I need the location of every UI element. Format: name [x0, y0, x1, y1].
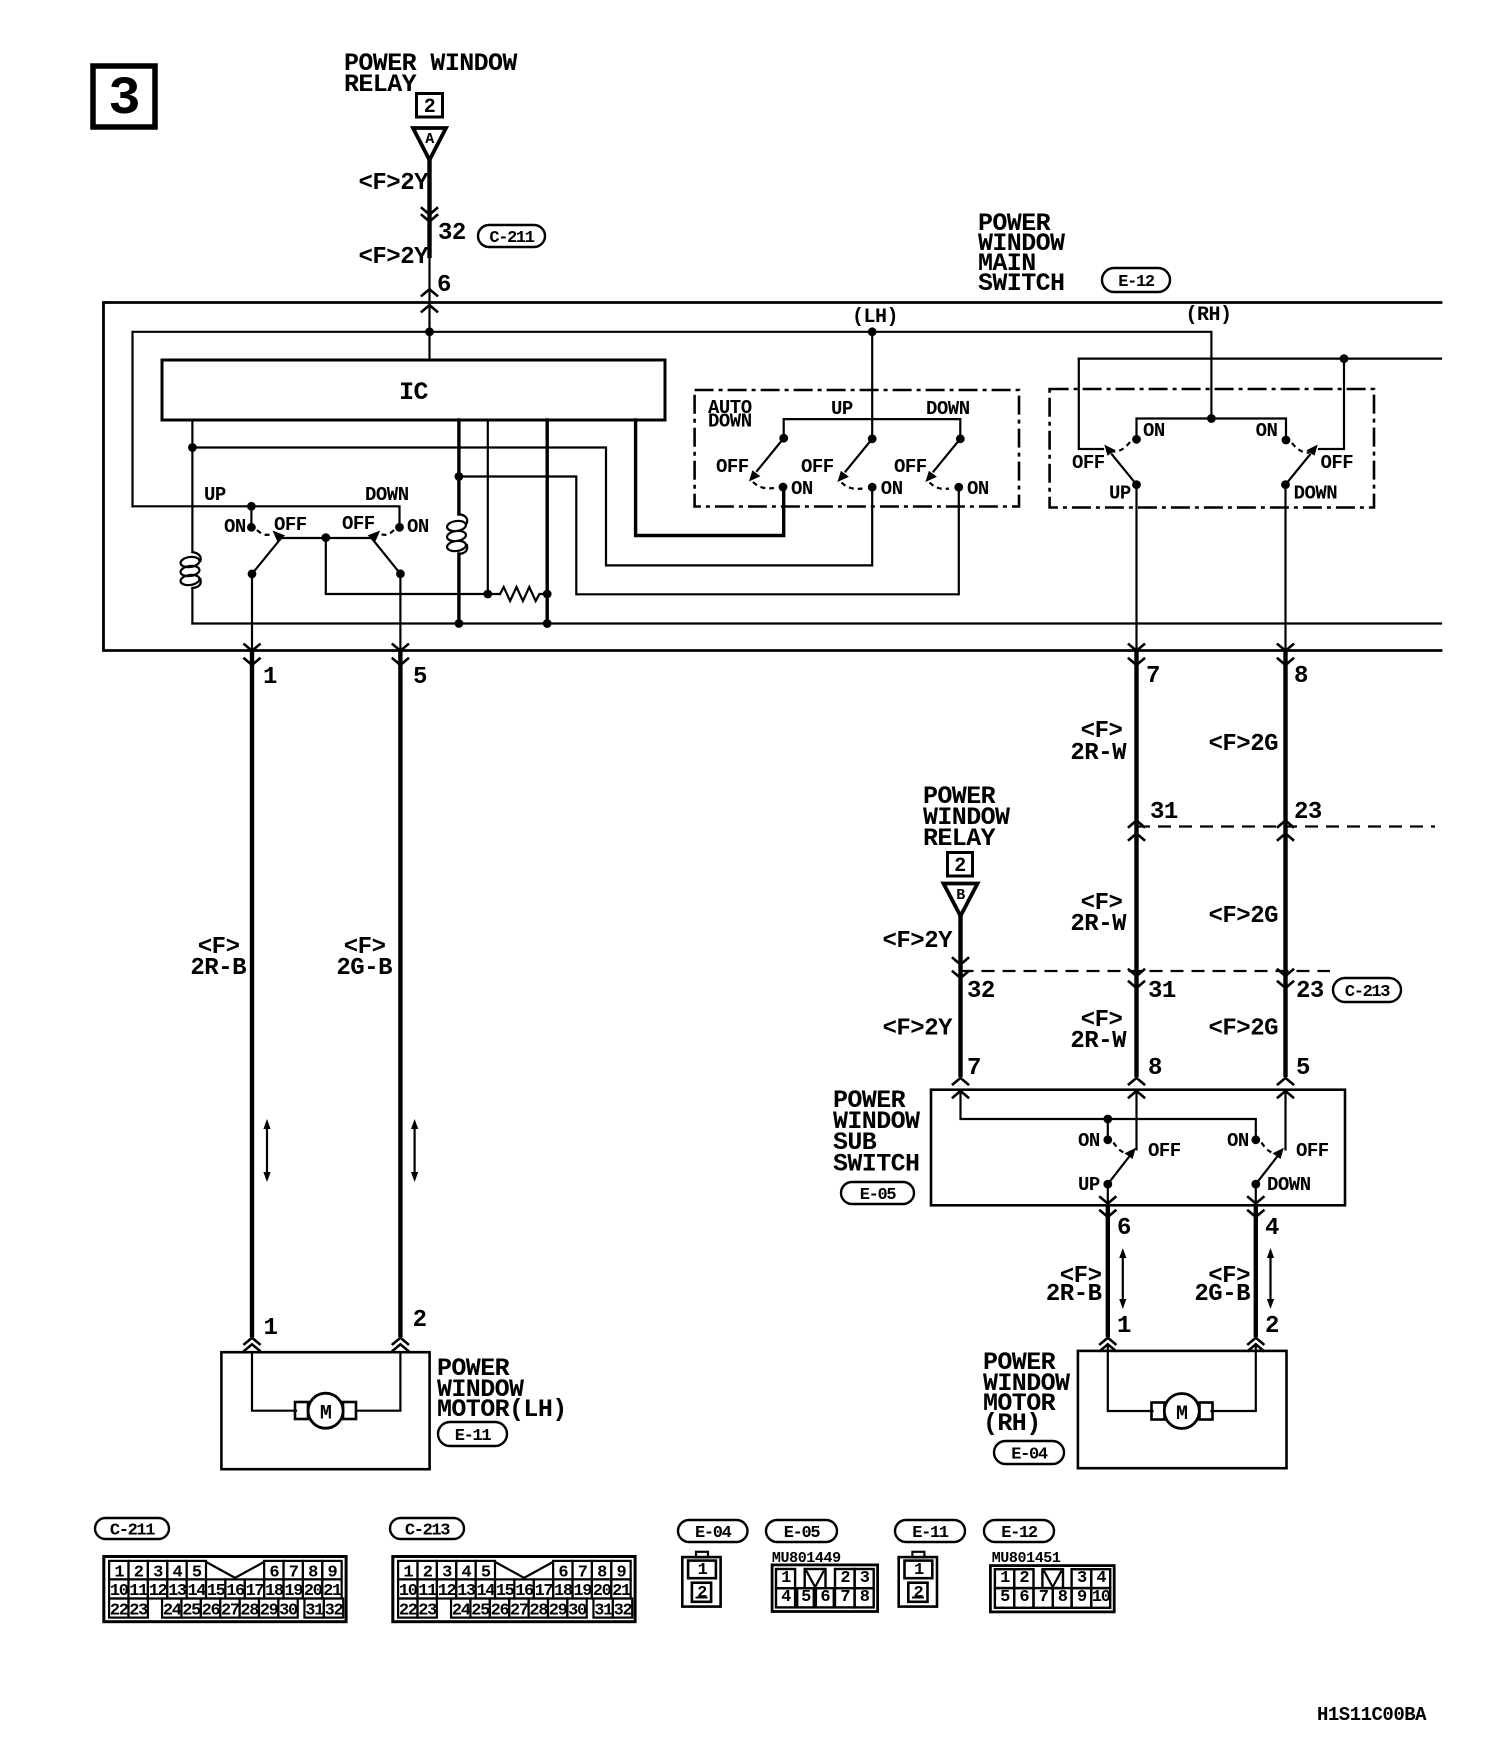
chevrons wire8 at upper dashed line: [1278, 821, 1293, 840]
svg-text:OFF: OFF: [1296, 1140, 1329, 1162]
svg-text:RELAY: RELAY: [344, 70, 417, 99]
svg-text:29: 29: [549, 1601, 568, 1620]
connector label E-04 bottom: [678, 1520, 748, 1543]
LH switch dashed throw right: [381, 530, 394, 535]
svg-text:<F>2G: <F>2G: [1208, 731, 1278, 758]
svg-text:26: 26: [491, 1601, 510, 1620]
connector label E-12 bottom: [984, 1520, 1054, 1543]
svg-text:OFF: OFF: [342, 513, 375, 535]
RH OFF rail: [1079, 358, 1441, 360]
junction bar/ON stub: [247, 502, 256, 511]
junction RH OFF rail right: [1340, 354, 1349, 363]
LH switch ON contact left: [247, 523, 256, 532]
svg-text:C-213: C-213: [1345, 983, 1390, 1002]
svg-text:2: 2: [1265, 1313, 1279, 1340]
svg-text:ON: ON: [967, 478, 989, 500]
auto down switch enclosure: [695, 390, 1019, 507]
power window main switch box E-12: [104, 303, 1442, 651]
svg-text:DOWN: DOWN: [708, 411, 752, 433]
svg-text:<F>2Y: <F>2Y: [358, 244, 429, 271]
auto-down pivot 2: [868, 434, 877, 443]
connector pinout C-211: [104, 1557, 346, 1622]
wire 2R-B to motor LH: [250, 651, 254, 1337]
RH ON contact left: [1132, 435, 1141, 444]
wire relay B to sub switch: [958, 914, 962, 1077]
svg-text:22: 22: [399, 1601, 418, 1620]
wire LH feed to auto-down switch: [871, 332, 873, 439]
sub arm UP: [1108, 1148, 1136, 1184]
coil L2: [446, 514, 467, 554]
up-down arrow right 2: [1267, 1248, 1274, 1309]
auto-down dashed throw 3: [930, 483, 950, 489]
wire 2G-B sub to motor RH: [1254, 1206, 1258, 1337]
svg-text:4: 4: [781, 1588, 791, 1607]
svg-text:ON: ON: [1143, 420, 1165, 442]
wire IC to auto-down common: [636, 420, 784, 536]
svg-text:C-211: C-211: [489, 229, 534, 248]
svg-text:3: 3: [1077, 1569, 1087, 1588]
auto-down ON contact 3: [954, 483, 963, 492]
connector pinout C-213: [393, 1557, 635, 1622]
sub switch common wire: [961, 1091, 1256, 1140]
svg-text:6: 6: [437, 272, 451, 299]
wire label (F) 2R-W seg2: [1070, 890, 1127, 938]
svg-text:25: 25: [182, 1601, 201, 1620]
svg-text:1: 1: [1000, 1569, 1010, 1588]
IC pin wire thin to resistor node: [487, 420, 489, 594]
RH dashed throw left: [1113, 442, 1131, 452]
wire pin 8 inside box: [1284, 485, 1286, 651]
RH pivot UP: [1132, 480, 1141, 489]
wire pin7 to sub OFF left: [1135, 1091, 1137, 1149]
svg-text:31: 31: [305, 1601, 324, 1620]
relay A connector triangle A: [413, 128, 446, 160]
wire label (F) 2R-W seg3: [1070, 1007, 1127, 1055]
chevrons pin 1 exit: [244, 644, 259, 665]
svg-text:26: 26: [202, 1601, 221, 1620]
sub arm DOWN: [1256, 1148, 1284, 1184]
RH arm DOWN: [1286, 445, 1318, 485]
LH switch ON stub left: [250, 506, 252, 527]
svg-text:ON: ON: [791, 478, 813, 500]
connector label E-11 bottom: [895, 1520, 965, 1543]
auto-down dashed throw 1: [753, 482, 774, 488]
svg-text:MOTOR(LH): MOTOR(LH): [437, 1395, 567, 1424]
svg-text:7: 7: [967, 1055, 981, 1082]
svg-text:4: 4: [1096, 1569, 1106, 1588]
up-down arrow right 1: [1119, 1248, 1126, 1309]
svg-text:A: A: [425, 131, 434, 148]
svg-text:E-05: E-05: [784, 1524, 821, 1543]
svg-text:SWITCH: SWITCH: [978, 269, 1064, 298]
RH ON contact right: [1282, 436, 1291, 445]
svg-text:OFF: OFF: [716, 456, 749, 478]
chevrons motor RH pin2: [1248, 1338, 1263, 1351]
svg-text:E-12: E-12: [1001, 1524, 1038, 1543]
svg-text:1: 1: [263, 664, 277, 691]
sub pivot DOWN: [1251, 1180, 1260, 1189]
svg-text:32: 32: [438, 220, 466, 247]
power window main switch label: [978, 209, 1065, 298]
svg-text:9: 9: [1077, 1588, 1087, 1607]
svg-text:DOWN: DOWN: [365, 484, 409, 506]
chevrons entering main switch: [422, 289, 437, 311]
LH switch pivot left: [248, 570, 257, 579]
svg-text:E-05: E-05: [860, 1186, 897, 1205]
svg-text:DOWN: DOWN: [926, 398, 970, 420]
svg-text:28: 28: [240, 1601, 259, 1620]
svg-text:1: 1: [781, 1569, 791, 1588]
svg-text:E-04: E-04: [1011, 1446, 1048, 1465]
svg-text:2R-W: 2R-W: [1070, 911, 1127, 938]
chevrons relay B wire at C-213: [953, 958, 968, 978]
connector label C-211 bottom: [95, 1518, 169, 1541]
svg-text:E-12: E-12: [1118, 273, 1155, 292]
RH switch enclosure: [1050, 389, 1374, 508]
IC pin wire thick to resistor node: [546, 420, 549, 624]
connector pinout E-04: [682, 1552, 720, 1607]
wire pin5 to sub OFF right: [1284, 1091, 1286, 1149]
svg-text:2R-B: 2R-B: [1046, 1281, 1102, 1308]
svg-text:C-211: C-211: [110, 1522, 155, 1541]
svg-text:<F>2Y: <F>2Y: [358, 170, 429, 197]
chevrons pin 8 exit: [1278, 644, 1293, 665]
LH switch top bar: [133, 506, 400, 527]
connector label E-04 motor: [994, 1441, 1064, 1465]
wire pin 1 inside box: [251, 574, 253, 651]
svg-text:6: 6: [1117, 1215, 1131, 1242]
svg-text:6: 6: [820, 1588, 830, 1607]
chevrons wire8 entering sub switch: [1278, 1078, 1293, 1098]
svg-text:3: 3: [108, 69, 140, 130]
chevrons sub pin6 exit: [1100, 1197, 1115, 1217]
svg-text:27: 27: [221, 1601, 240, 1620]
svg-text:30: 30: [279, 1601, 298, 1620]
svg-text:RELAY: RELAY: [923, 824, 996, 853]
chevrons wire7 at upper dashed line: [1129, 821, 1144, 840]
wire sub pin6 inside: [1107, 1184, 1109, 1205]
svg-text:1: 1: [1117, 1313, 1131, 1340]
RH pivot DOWN: [1281, 480, 1290, 489]
LH switch arm left: [252, 531, 285, 574]
svg-text:ON: ON: [407, 516, 429, 538]
svg-text:2: 2: [697, 1584, 707, 1603]
relay B terminal box 2: [948, 853, 973, 879]
svg-text:6: 6: [1019, 1588, 1029, 1607]
svg-text:2R-W: 2R-W: [1070, 1028, 1127, 1055]
wire IC to auto-down UP contact: [192, 448, 872, 566]
svg-text:UP: UP: [204, 484, 226, 506]
svg-text:<F>2Y: <F>2Y: [882, 1016, 953, 1043]
connector label E-05 bottom: [766, 1520, 837, 1543]
auto-down arm 3: [925, 439, 960, 482]
svg-text:7: 7: [1039, 1588, 1049, 1607]
svg-text:24: 24: [452, 1601, 471, 1620]
junction pin6/rail: [425, 327, 434, 336]
chevrons wire7 at C-213: [1129, 970, 1144, 988]
svg-text:IC: IC: [399, 378, 428, 407]
auto-down ON contact 2: [868, 483, 877, 492]
svg-text:5: 5: [413, 664, 427, 691]
wire sub pin4 inside: [1255, 1184, 1257, 1205]
svg-text:H1S11C00BA: H1S11C00BA: [1317, 1704, 1427, 1726]
svg-text:30: 30: [568, 1601, 587, 1620]
svg-text:2: 2: [954, 855, 966, 878]
motor LH wiring: [252, 1352, 296, 1411]
connector label E-11 motor: [438, 1422, 507, 1446]
svg-text:2: 2: [913, 1584, 923, 1603]
resistor R1 line: [326, 538, 500, 594]
svg-text:23: 23: [129, 1601, 148, 1620]
relay A terminal box 2: [417, 94, 443, 120]
svg-text:E-04: E-04: [695, 1524, 732, 1543]
wire IC to auto-down DOWN contact: [459, 477, 959, 595]
svg-text:31: 31: [1148, 978, 1176, 1005]
power window motor LH label: [437, 1354, 567, 1424]
svg-text:29: 29: [260, 1601, 279, 1620]
sub pivot UP: [1103, 1180, 1112, 1189]
wire label (F) 2G-B right: [1194, 1263, 1250, 1308]
svg-text:32: 32: [614, 1601, 633, 1620]
svg-text:E-11: E-11: [455, 1427, 492, 1446]
svg-text:31: 31: [594, 1601, 613, 1620]
IC U1: [162, 360, 665, 420]
connector label C-213 bottom: [390, 1518, 464, 1541]
svg-text:5: 5: [1000, 1588, 1010, 1607]
svg-text:2: 2: [840, 1569, 850, 1588]
svg-text:31: 31: [1150, 799, 1178, 826]
auto-down ON contact 1: [779, 483, 788, 492]
chevrons relay B wire entering sub switch: [953, 1078, 968, 1098]
svg-text:3: 3: [860, 1569, 870, 1588]
svg-text:<F>2Y: <F>2Y: [882, 928, 953, 955]
connector label E-05: [841, 1182, 914, 1205]
up-down arrow left 2: [411, 1119, 418, 1182]
AUTO DOWN label: [708, 397, 752, 433]
wire 2G-B to motor LH: [398, 651, 402, 1337]
coil L1: [180, 552, 201, 588]
chevrons motor RH pin1: [1100, 1338, 1115, 1351]
svg-text:10: 10: [1092, 1588, 1111, 1607]
LH switch dashed throw left: [257, 530, 272, 535]
svg-text:25: 25: [471, 1601, 490, 1620]
svg-text:UP: UP: [831, 398, 853, 420]
ground rail bottom of main switch: [192, 622, 1441, 624]
svg-text:23: 23: [418, 1601, 437, 1620]
chevrons wire7 entering sub switch: [1129, 1078, 1144, 1098]
page number box 3: [93, 66, 155, 130]
svg-text:7: 7: [840, 1588, 850, 1607]
junction resistor right: [543, 590, 552, 599]
auto-down arm 2: [837, 439, 872, 482]
connector label E-12: [1102, 268, 1170, 292]
svg-text:5: 5: [1296, 1055, 1310, 1082]
junction IC mid pin: [455, 472, 464, 481]
svg-text:OFF: OFF: [894, 456, 927, 478]
svg-text:23: 23: [1294, 799, 1322, 826]
svg-text:1: 1: [264, 1315, 278, 1342]
svg-text:(RH): (RH): [983, 1409, 1041, 1438]
svg-text:OFF: OFF: [1072, 452, 1105, 474]
motor RH wiring: [1108, 1344, 1153, 1411]
junction LH feed: [868, 327, 877, 336]
chevrons at connector C-211 crossing: [422, 208, 437, 221]
svg-text:OFF: OFF: [1148, 1140, 1181, 1162]
svg-text:2R-B: 2R-B: [190, 955, 246, 982]
sub dashed throw right: [1262, 1143, 1277, 1154]
auto-down common bar: [784, 419, 961, 439]
svg-text:5: 5: [801, 1588, 811, 1607]
sub ON contact left: [1103, 1135, 1112, 1144]
power window motor RH label: [983, 1348, 1070, 1438]
wire label (F) 2R-W seg1: [1070, 718, 1127, 767]
sub ON contact right: [1251, 1135, 1260, 1144]
svg-text:2: 2: [413, 1307, 427, 1334]
svg-text:24: 24: [163, 1601, 182, 1620]
svg-text:2G-B: 2G-B: [336, 955, 392, 982]
IC pin wire / relay coil mid: [457, 420, 460, 624]
svg-text:2R-W: 2R-W: [1070, 740, 1127, 767]
junction IC left pin: [188, 443, 197, 452]
auto-down arm 1: [749, 438, 784, 481]
svg-text:E-11: E-11: [912, 1524, 949, 1543]
wire: relay A to main switch pin 6: [427, 158, 431, 360]
wire label (F) 2R-B left: [190, 934, 246, 982]
svg-text:UP: UP: [1078, 1174, 1100, 1196]
LH switch pivot right: [396, 569, 405, 578]
chevrons motor LH pin1: [244, 1338, 259, 1351]
wire RH OFF right drop: [1319, 359, 1344, 449]
svg-text:DOWN: DOWN: [1294, 483, 1338, 505]
svg-text:(RH): (RH): [1185, 304, 1231, 327]
svg-text:(LH): (LH): [852, 306, 898, 329]
svg-text:7: 7: [1146, 663, 1160, 690]
LH switch ON contact right: [395, 523, 404, 532]
chevrons pin 7 exit: [1129, 644, 1144, 665]
svg-text:ON: ON: [1256, 420, 1278, 442]
junction RH feed/bar: [1207, 414, 1216, 423]
RH arm UP: [1104, 445, 1136, 485]
auto-down dashed throw 2: [842, 483, 863, 489]
resistor R1: [500, 587, 547, 601]
wire pin 5 inside box: [399, 574, 401, 651]
wire 2G pin8 to sub switch: [1283, 651, 1287, 1077]
connector pinout E-11: [899, 1552, 937, 1607]
relay B connector triangle B: [944, 884, 978, 917]
wire 2R-B sub to motor RH: [1106, 1206, 1110, 1337]
sub ON stub left: [1107, 1119, 1109, 1140]
svg-text:8: 8: [1294, 663, 1308, 690]
svg-text:C-213: C-213: [405, 1522, 450, 1541]
RH switch common bar: [1137, 419, 1287, 441]
supply rail from pin 6: [133, 332, 1212, 507]
svg-text:27: 27: [510, 1601, 529, 1620]
junction contact bar center: [321, 533, 330, 542]
svg-text:2G-B: 2G-B: [1194, 1281, 1250, 1308]
wire pin 7 inside box: [1135, 485, 1137, 651]
power window sub switch box E-05: [931, 1090, 1345, 1206]
svg-text:8: 8: [1148, 1055, 1162, 1082]
wire 2R-W pin7 to sub switch: [1134, 651, 1138, 1077]
RH dashed throw right: [1292, 443, 1310, 453]
power window relay (A) label: [344, 49, 517, 99]
svg-text:SWITCH: SWITCH: [833, 1150, 919, 1179]
svg-text:B: B: [956, 887, 965, 904]
motor M1 (LH): [295, 1393, 356, 1428]
chevrons sub pin4 exit: [1248, 1197, 1263, 1217]
dashed connector line upper: [1137, 825, 1435, 827]
junction resistor left: [483, 590, 492, 599]
svg-text:ON: ON: [224, 516, 246, 538]
svg-text:OFF: OFF: [274, 514, 307, 536]
power window motor LH box E-11: [221, 1352, 429, 1469]
chevrons wire8 at C-213: [1278, 970, 1293, 988]
auto-down pivot 1: [779, 434, 788, 443]
connector label C-211: [478, 225, 545, 248]
svg-text:4: 4: [1265, 1215, 1279, 1242]
svg-text:23: 23: [1296, 978, 1324, 1005]
svg-text:<F>2G: <F>2G: [1208, 903, 1278, 930]
power window relay (B) label: [923, 782, 1010, 853]
svg-text:M: M: [1176, 1403, 1188, 1426]
svg-text:32: 32: [325, 1601, 344, 1620]
motor M2 (RH): [1152, 1394, 1213, 1429]
svg-text:32: 32: [967, 978, 995, 1005]
connector pinout E-12 MU801451: [990, 1550, 1114, 1612]
svg-text:M: M: [320, 1403, 332, 1426]
svg-text:2: 2: [1019, 1569, 1029, 1588]
connector label C-213: [1333, 978, 1401, 1002]
svg-text:ON: ON: [881, 478, 903, 500]
auto-down pivot 3: [956, 434, 965, 443]
wire label (F) 2G-B left: [336, 934, 392, 982]
svg-text:<F>2G: <F>2G: [1208, 1016, 1278, 1043]
wire label (F) 2R-B right: [1046, 1263, 1102, 1308]
svg-text:2: 2: [424, 96, 436, 119]
wire RH OFF left drop: [1079, 359, 1103, 449]
svg-text:1: 1: [698, 1561, 708, 1580]
svg-text:OFF: OFF: [801, 456, 834, 478]
svg-text:OFF: OFF: [1321, 452, 1354, 474]
LH switch contact bar: [281, 537, 371, 539]
LH switch arm right: [368, 531, 401, 574]
dashed connector line C-213: [961, 970, 1331, 972]
power window sub switch label: [833, 1086, 920, 1179]
chevrons motor LH pin2: [393, 1338, 408, 1351]
svg-text:22: 22: [110, 1601, 129, 1620]
svg-text:1: 1: [914, 1561, 924, 1580]
chevrons pin 5 exit: [393, 644, 408, 665]
junction rail/IC pin: [543, 619, 552, 628]
junction rail/coil mid: [455, 619, 464, 628]
svg-text:8: 8: [860, 1588, 870, 1607]
connector pinout E-05 MU801449: [772, 1550, 878, 1612]
junction sub common/ON stub: [1103, 1115, 1112, 1124]
svg-text:DOWN: DOWN: [1267, 1174, 1311, 1196]
svg-text:ON: ON: [1227, 1130, 1249, 1152]
svg-text:UP: UP: [1109, 483, 1131, 505]
svg-text:28: 28: [529, 1601, 548, 1620]
up-down arrow left 1: [263, 1119, 270, 1182]
sub dashed throw left: [1114, 1143, 1129, 1154]
IC pin wire / relay coil left: [191, 420, 193, 624]
svg-text:8: 8: [1058, 1588, 1068, 1607]
svg-text:ON: ON: [1078, 1130, 1100, 1152]
power window motor RH box E-04: [1078, 1351, 1287, 1468]
